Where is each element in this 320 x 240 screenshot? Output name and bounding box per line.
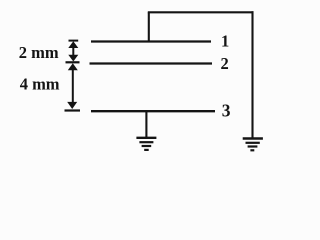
dimension tick at plate 3 level xyxy=(65,109,81,111)
value label 4 mm xyxy=(20,75,60,94)
plate 3 xyxy=(91,110,215,112)
value label 2 mm xyxy=(19,43,59,62)
wire from plate 1 up to top rail xyxy=(148,12,150,41)
plate label 2 xyxy=(221,54,229,73)
svg-text:3: 3 xyxy=(222,100,231,120)
plate label 1 xyxy=(221,32,229,51)
plate 2 xyxy=(90,62,213,64)
dimension tick at plate 1 level xyxy=(69,40,79,42)
svg-text:2 mm: 2 mm xyxy=(19,43,59,62)
svg-text:4 mm: 4 mm xyxy=(20,75,60,94)
plate 1 xyxy=(91,40,211,42)
wire from plate 3 down to ground xyxy=(145,111,147,137)
svg-text:2: 2 xyxy=(221,54,229,73)
svg-text:1: 1 xyxy=(221,32,229,51)
ground right (end of top wire) xyxy=(243,139,263,151)
dimension arrow 4 mm (double-headed) xyxy=(67,63,78,109)
wire right vertical down to ground xyxy=(251,11,253,137)
ground left (under plate 3) xyxy=(136,138,156,150)
plate label 3 xyxy=(222,100,231,120)
wire top horizontal rail xyxy=(148,11,254,13)
dimension tick at plate 2 level xyxy=(66,61,80,63)
dimension arrow 2 mm (double-headed) xyxy=(68,41,78,61)
